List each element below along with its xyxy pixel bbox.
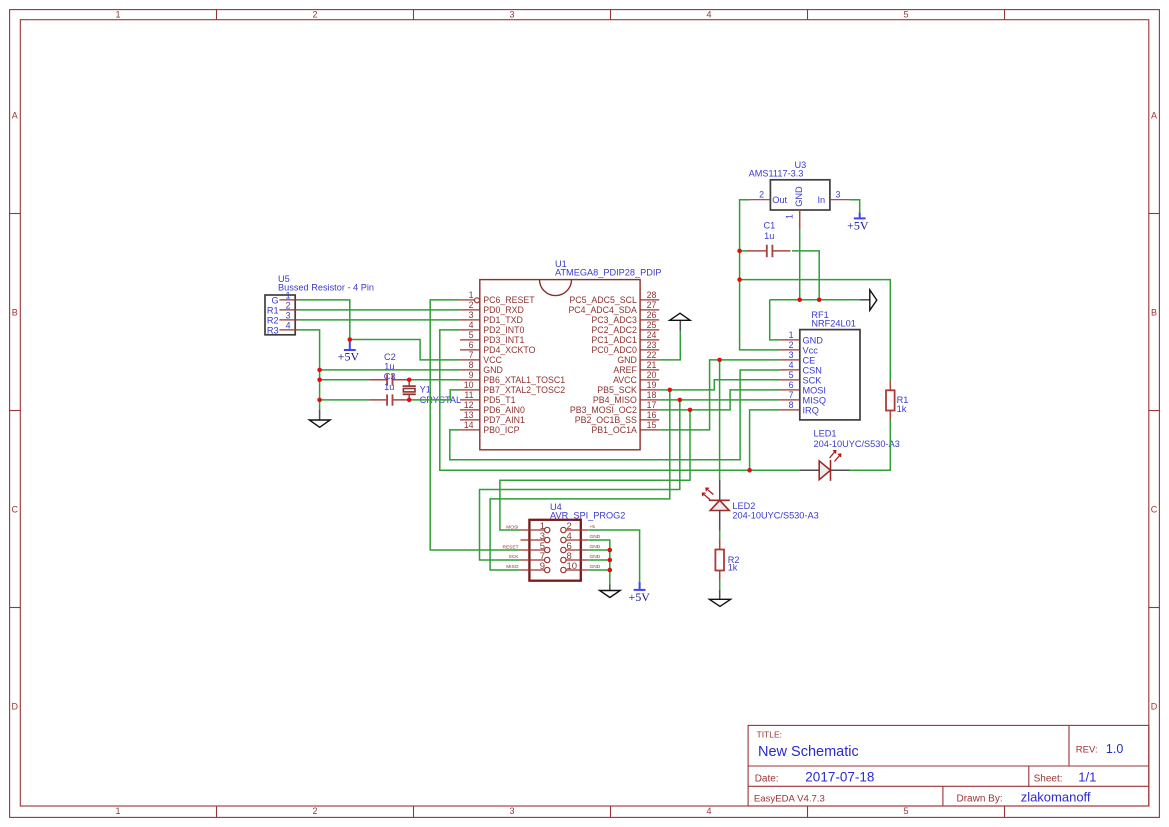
svg-text:8: 8: [469, 360, 474, 370]
svg-text:GND: GND: [483, 365, 503, 375]
IC U1 ATMEGA8_PDIP28_PDIP body: [460, 280, 659, 450]
svg-text:12: 12: [464, 400, 474, 410]
svg-text:AVCC: AVCC: [613, 375, 637, 385]
svg-text:NRF24L01: NRF24L01: [811, 319, 855, 329]
svg-text:PC1_ADC1: PC1_ADC1: [591, 335, 637, 345]
svg-text:204-10UYC/S530-A3: 204-10UYC/S530-A3: [732, 510, 818, 520]
wire +5V junction to U1 VCC: [350, 340, 460, 360]
wire SCK branch to U4 MISO: [490, 390, 670, 570]
svg-text:PB1_OC1A: PB1_OC1A: [591, 425, 637, 435]
svg-text:PC5_ADC5_SCL: PC5_ADC5_SCL: [569, 295, 637, 305]
svg-text:B: B: [12, 307, 18, 317]
wire MOSI net U1 pin17 to RF1 MOSI: [659, 390, 780, 410]
svg-text:PB7_XTAL2_TOSC2: PB7_XTAL2_TOSC2: [483, 385, 565, 395]
svg-text:4: 4: [706, 806, 711, 816]
svg-text:R2: R2: [267, 315, 279, 325]
svg-text:7: 7: [469, 350, 474, 360]
svg-text:+5V: +5V: [628, 590, 650, 604]
title block: [748, 725, 1149, 806]
regulator U3 AMS1117-3.3 body: [750, 180, 850, 230]
svg-text:C2: C2: [384, 352, 396, 362]
svg-text:1u: 1u: [384, 382, 394, 392]
svg-text:9: 9: [540, 561, 545, 572]
svg-text:1k: 1k: [897, 404, 907, 414]
ground symbol (right arrow, U3 GND net): [860, 290, 877, 310]
svg-text:11: 11: [464, 390, 473, 400]
svg-text:PB2_OC1B_SS: PB2_OC1B_SS: [575, 415, 637, 425]
wire C2 to U1 pin9: [409, 379, 460, 381]
svg-text:+5V: +5V: [338, 349, 360, 363]
svg-text:22: 22: [647, 350, 657, 360]
capacitor C3 1u: [370, 394, 409, 405]
svg-text:GND: GND: [590, 564, 601, 570]
svg-text:1k: 1k: [728, 563, 738, 573]
svg-text:2: 2: [469, 300, 474, 310]
svg-text:C1: C1: [764, 221, 776, 231]
svg-text:4: 4: [706, 10, 711, 20]
svg-text:PC2_ADC2: PC2_ADC2: [591, 325, 637, 335]
svg-text:5: 5: [903, 806, 908, 816]
svg-text:PD3_INT1: PD3_INT1: [483, 335, 524, 345]
svg-text:zlakomanoff: zlakomanoff: [1021, 789, 1091, 804]
svg-text:5: 5: [469, 330, 474, 340]
+5V net flag (right, U3 In): [847, 213, 869, 233]
wire U5 G to +5V junction: [300, 300, 350, 340]
svg-text:+5V: +5V: [847, 219, 869, 233]
LED1 204-10UYC/S530-A3: [799, 451, 849, 481]
svg-text:IRQ: IRQ: [803, 405, 819, 415]
svg-text:21: 21: [647, 360, 657, 370]
svg-text:4: 4: [469, 320, 474, 330]
svg-text:24: 24: [647, 330, 657, 340]
wire U1 GND pin22 to up arrow: [659, 330, 680, 360]
junction dots: [317, 249, 821, 573]
svg-text:C: C: [1151, 504, 1158, 514]
svg-text:1/1: 1/1: [1078, 769, 1096, 784]
svg-text:9: 9: [469, 370, 474, 380]
svg-text:AREF: AREF: [613, 365, 637, 375]
svg-text:R1: R1: [267, 305, 279, 315]
wire GND column to C3: [320, 399, 370, 401]
svg-text:ATMEGA8_PDIP28_PDIP: ATMEGA8_PDIP28_PDIP: [555, 268, 662, 278]
wire 3.3V rail to R1: [740, 280, 891, 381]
wire U3 GND pin down: [799, 229, 801, 299]
module RF1 NRF24L01 body: [780, 330, 860, 420]
wire U4 GND row10: [588, 569, 610, 571]
wire CSN net U1 pin14 to RF1 CSN: [450, 370, 780, 460]
wire C1 right to GND column: [792, 251, 819, 300]
wire MOSI branch to U4 MOSI: [500, 410, 690, 530]
svg-text:1: 1: [115, 10, 120, 20]
svg-text:13: 13: [464, 410, 474, 420]
wire U4 +5 to flag: [588, 530, 639, 582]
svg-text:PD5_T1: PD5_T1: [483, 395, 515, 405]
svg-text:G: G: [271, 295, 278, 305]
svg-text:+5: +5: [590, 524, 596, 530]
ground symbol left (U5/R3 net): [309, 410, 330, 427]
svg-text:2: 2: [759, 190, 764, 200]
svg-text:17: 17: [647, 400, 657, 410]
wire CE net U1 pin15: [659, 360, 780, 430]
svg-text:Drawn By:: Drawn By:: [957, 793, 1003, 804]
wire GND row to arrow: [770, 299, 860, 301]
wire U5 R2 to U1 pin3: [300, 319, 460, 321]
svg-text:28: 28: [647, 290, 657, 300]
svg-text:SCK: SCK: [803, 375, 823, 385]
resistor R1 1k: [886, 380, 895, 420]
svg-text:1: 1: [469, 290, 474, 300]
capacitor C2 1u: [370, 374, 409, 385]
svg-text:3: 3: [509, 10, 514, 20]
frame row ticks: [10, 214, 1160, 608]
svg-text:2017-07-18: 2017-07-18: [805, 769, 874, 784]
svg-text:AVR_SPI_PROG2: AVR_SPI_PROG2: [550, 510, 625, 520]
svg-text:4: 4: [286, 320, 291, 330]
svg-text:2: 2: [312, 806, 317, 816]
wire GND row to RF1 GND: [770, 300, 780, 340]
svg-text:PD1_TXD: PD1_TXD: [483, 315, 523, 325]
capacitor C1 1u: [747, 245, 791, 258]
svg-text:19: 19: [647, 380, 657, 390]
resistor R2 1k: [715, 539, 724, 580]
svg-text:3: 3: [469, 310, 474, 320]
svg-text:CE: CE: [803, 355, 816, 365]
svg-text:B: B: [1151, 307, 1157, 317]
svg-text:Bussed Resistor - 4 Pin: Bussed Resistor - 4 Pin: [278, 283, 374, 293]
svg-text:1: 1: [789, 330, 794, 340]
svg-text:C3: C3: [384, 372, 396, 382]
crystal Y1: [403, 380, 416, 400]
svg-text:1.0: 1.0: [1106, 742, 1123, 756]
svg-text:PB0_ICP: PB0_ICP: [483, 425, 519, 435]
svg-text:2: 2: [286, 300, 291, 310]
svg-text:PB5_SCK: PB5_SCK: [597, 385, 637, 395]
svg-text:D: D: [1151, 701, 1158, 711]
wire U4 GND row6: [588, 549, 610, 551]
LED2 204-10UYC/S530-A3: [702, 480, 729, 531]
wire RESET net U1 pin1 to U4: [430, 300, 520, 550]
svg-text:GND: GND: [794, 186, 804, 207]
svg-text:REV:: REV:: [1076, 745, 1098, 756]
svg-text:PC0_ADC0: PC0_ADC0: [591, 345, 637, 355]
frame column ticks: [217, 10, 1005, 818]
wire U5 R1 to U1 pin2: [300, 309, 460, 311]
svg-text:Vcc: Vcc: [803, 345, 819, 355]
svg-text:2: 2: [312, 10, 317, 20]
svg-text:VCC: VCC: [483, 355, 502, 365]
svg-text:PD7_AIN1: PD7_AIN1: [483, 415, 525, 425]
svg-text:Sheet:: Sheet:: [1034, 773, 1063, 784]
wire U5 R3 to ground column: [300, 330, 320, 410]
svg-text:6: 6: [789, 380, 794, 390]
svg-text:MISQ: MISQ: [803, 395, 826, 405]
wire SCK net U1 pin19 to RF1 SCK: [659, 380, 780, 390]
svg-text:3: 3: [509, 806, 514, 816]
svg-text:MOSI: MOSI: [803, 385, 826, 395]
svg-text:PD4_XCKTO: PD4_XCKTO: [483, 345, 535, 355]
svg-text:14: 14: [464, 420, 474, 430]
svg-text:C: C: [12, 504, 19, 514]
svg-text:MISO: MISO: [506, 564, 519, 570]
svg-text:26: 26: [647, 310, 657, 320]
svg-text:AMS1117-3.3: AMS1117-3.3: [749, 168, 804, 178]
svg-text:7: 7: [789, 390, 794, 400]
svg-text:PD6_AIN0: PD6_AIN0: [483, 405, 525, 415]
svg-text:Y1: Y1: [420, 385, 431, 395]
svg-text:EasyEDA V4.7.3: EasyEDA V4.7.3: [754, 793, 825, 804]
svg-text:4: 4: [789, 360, 794, 370]
svg-text:Date:: Date:: [755, 773, 779, 784]
svg-text:8: 8: [789, 400, 794, 410]
svg-text:GND: GND: [617, 355, 637, 365]
svg-text:In: In: [818, 195, 826, 205]
svg-text:6: 6: [469, 340, 474, 350]
svg-text:27: 27: [647, 300, 657, 310]
wire CE branch to LED2: [719, 360, 721, 480]
svg-text:PC6_RESET: PC6_RESET: [483, 295, 535, 305]
resistor network U5 Bussed Resistor - 4 Pin body: [265, 290, 300, 335]
wire LED2 to R2: [719, 531, 721, 539]
svg-text:10: 10: [464, 380, 474, 390]
svg-text:10: 10: [567, 561, 578, 572]
svg-text:LED1: LED1: [814, 429, 837, 439]
svg-text:3: 3: [789, 350, 794, 360]
svg-text:A: A: [1151, 110, 1157, 120]
frame column numbers: [115, 10, 908, 816]
svg-text:15: 15: [647, 420, 657, 430]
svg-text:A: A: [12, 110, 18, 120]
wire U4 GND row8: [588, 559, 610, 561]
svg-text:PD2_INT0: PD2_INT0: [483, 325, 524, 335]
wire U4 GND bus: [588, 540, 610, 585]
svg-text:16: 16: [647, 410, 657, 420]
svg-text:Out: Out: [772, 195, 787, 205]
svg-text:PC3_ADC3: PC3_ADC3: [591, 315, 637, 325]
svg-text:1: 1: [115, 806, 120, 816]
connector U4 AVR_SPI_PROG2 body: [503, 520, 601, 581]
svg-text:CSN: CSN: [803, 365, 822, 375]
svg-text:23: 23: [647, 340, 657, 350]
wire GND column to U1 pin8: [320, 369, 460, 371]
frame row letters: [12, 110, 1158, 711]
wire R2 to ground: [719, 580, 721, 591]
svg-text:2: 2: [789, 340, 794, 350]
svg-text:New Schematic: New Schematic: [758, 744, 859, 760]
wire C1 left: [740, 250, 747, 252]
svg-text:18: 18: [647, 390, 657, 400]
wire IRQ branch to RF1: [750, 410, 780, 470]
wire INT0/IRQ/LED1 net: [440, 330, 800, 470]
ground symbol under U4: [600, 584, 621, 597]
svg-text:GND: GND: [590, 554, 601, 560]
wire LED1 cathode to R1 bottom: [850, 420, 891, 470]
svg-text:TITLE:: TITLE:: [757, 730, 783, 740]
svg-text:PB6_XTAL1_TOSC1: PB6_XTAL1_TOSC1: [483, 375, 565, 385]
svg-text:PC4_ADC4_SDA: PC4_ADC4_SDA: [568, 305, 637, 315]
svg-text:PD0_RXD: PD0_RXD: [483, 305, 524, 315]
ground symbol under R2: [709, 590, 730, 606]
ground symbol (up arrow, U1 pin22): [670, 313, 690, 330]
svg-text:20: 20: [647, 370, 657, 380]
svg-text:3: 3: [836, 190, 841, 200]
svg-text:D: D: [12, 701, 19, 711]
svg-text:5: 5: [903, 10, 908, 20]
+5V net flag (left, near U5): [338, 342, 360, 364]
svg-text:GND: GND: [590, 534, 601, 540]
svg-text:R3: R3: [267, 325, 279, 335]
svg-text:3: 3: [286, 310, 291, 320]
svg-text:204-10UYC/S530-A3: 204-10UYC/S530-A3: [814, 439, 900, 449]
wire C3 to U1 pin10: [409, 390, 460, 400]
svg-text:GND: GND: [803, 335, 824, 345]
svg-text:PB4_MISO: PB4_MISO: [593, 395, 637, 405]
wire MISO branch to U4 SCK: [480, 400, 680, 560]
wire U3 In to +5V: [850, 200, 860, 213]
wire GND column to C2: [320, 379, 370, 381]
svg-text:PB3_MOSI_OC2: PB3_MOSI_OC2: [570, 405, 637, 415]
+5V net flag (under U4): [628, 582, 650, 604]
wire 3.3V out net (U3 Out to RF1 Vcc): [740, 200, 780, 350]
svg-text:5: 5: [789, 370, 794, 380]
svg-text:1: 1: [785, 214, 795, 219]
wire MISO net U1 pin18 to RF1 MISQ: [659, 399, 780, 401]
svg-text:GND: GND: [590, 544, 601, 550]
svg-text:1u: 1u: [764, 231, 774, 241]
svg-text:25: 25: [647, 320, 657, 330]
